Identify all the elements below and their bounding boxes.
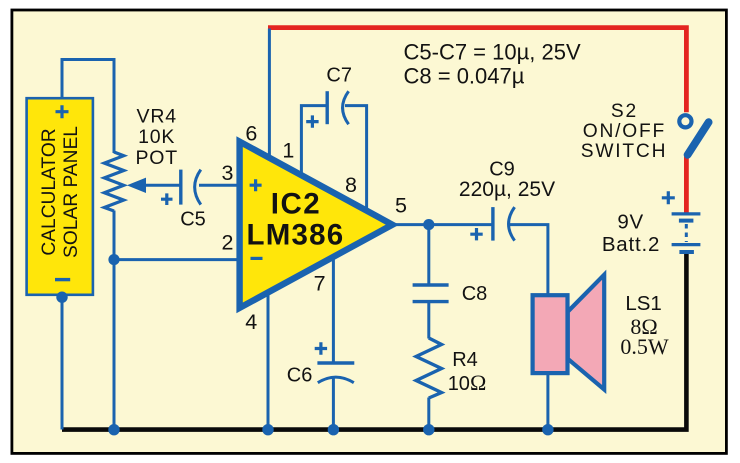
potentiometer VR4 wiper arrow bbox=[127, 178, 146, 193]
node: pin 4 ground junction dot bbox=[262, 424, 273, 435]
svg-text:SOLAR PANEL: SOLAR PANEL bbox=[61, 126, 82, 258]
svg-text:9V: 9V bbox=[617, 211, 644, 234]
svg-text:6: 6 bbox=[245, 121, 257, 145]
wire: panel - down to ground rail bbox=[61, 295, 64, 430]
switch S2 lever bbox=[688, 122, 709, 155]
svg-text:LS1: LS1 bbox=[625, 292, 661, 315]
svg-text:10Ω: 10Ω bbox=[448, 370, 487, 395]
wire: C8 to R4 bbox=[427, 303, 430, 339]
svg-text:CALCULATOR: CALCULATOR bbox=[39, 128, 60, 255]
wire: pin 7 down to C6 bbox=[332, 258, 335, 362]
wire: pin 4 down to ground rail bbox=[267, 294, 270, 430]
op-amp inverting input minus mark bbox=[251, 257, 263, 260]
wire: red segment switch bottom to battery + bbox=[684, 157, 689, 215]
battery plus mark bbox=[662, 191, 675, 204]
label VR4 10K POT bbox=[135, 106, 178, 170]
pin number labels bbox=[222, 121, 408, 334]
wire: C6 to ground rail bbox=[332, 378, 335, 430]
battery cell 2 short plate bbox=[679, 250, 694, 254]
svg-text:2: 2 bbox=[222, 230, 234, 254]
svg-text:C8 = 0.047µ: C8 = 0.047µ bbox=[404, 64, 525, 89]
label R4 value 10 ohm bbox=[448, 349, 487, 395]
capacitor C7 bbox=[306, 91, 348, 128]
svg-text:7: 7 bbox=[314, 272, 326, 296]
label 9V Batt.2 bbox=[602, 211, 660, 257]
wire: pin 6 riser to red rail bbox=[268, 29, 271, 160]
capacitor C8 bbox=[413, 285, 449, 302]
op-amp non-inverting input plus mark bbox=[250, 179, 262, 191]
battery cell 1 short plate bbox=[679, 219, 694, 223]
wire: C9 right plate to speaker top bbox=[508, 225, 548, 296]
potentiometer VR4 zigzag element bbox=[104, 152, 123, 211]
node: pot / pin 2 junction dot bbox=[108, 254, 119, 265]
wire: pot bottom down to ground rail bbox=[113, 211, 116, 430]
battery cell 2 long plate bbox=[672, 243, 701, 246]
wire: C7 right plate down to pin 8 bbox=[345, 106, 367, 212]
svg-text:10K: 10K bbox=[138, 126, 175, 148]
battery B2 cells bbox=[672, 214, 701, 252]
svg-text:3: 3 bbox=[222, 161, 234, 185]
panel plus terminal mark bbox=[56, 105, 69, 118]
capacitor C6 bbox=[315, 342, 355, 382]
svg-text:8: 8 bbox=[345, 173, 357, 197]
svg-text:5: 5 bbox=[395, 193, 407, 217]
svg-text:ON/OFF: ON/OFF bbox=[583, 121, 666, 142]
svg-text:VR4: VR4 bbox=[137, 106, 177, 128]
svg-text:R4: R4 bbox=[452, 349, 478, 371]
svg-text:SWITCH: SWITCH bbox=[581, 141, 667, 162]
solar panel PS1 calculator solar panel bbox=[27, 98, 93, 295]
battery cell 1 long plate bbox=[672, 212, 701, 215]
note component values bbox=[404, 40, 581, 89]
wire: pin 5 output to C9 bbox=[392, 223, 492, 226]
wire: R4 to ground rail bbox=[427, 398, 430, 430]
switch S2 contact circle bbox=[679, 115, 691, 127]
svg-text:IC2: IC2 bbox=[271, 187, 321, 220]
wire: panel + up and over to pot top bbox=[62, 60, 114, 154]
node: output junction dot bbox=[423, 219, 434, 230]
svg-text:C5-C7 = 10µ, 25V: C5-C7 = 10µ, 25V bbox=[404, 40, 581, 65]
node: panel negative terminal dot bbox=[56, 292, 67, 303]
wire: wiper arrow to C5 bbox=[144, 184, 180, 187]
node: speaker ground junction dot bbox=[542, 424, 553, 435]
svg-text:C5: C5 bbox=[180, 209, 206, 231]
node: pot ground junction dot bbox=[108, 424, 119, 435]
svg-text:Batt.2: Batt.2 bbox=[602, 233, 660, 256]
battery dashed middle link bbox=[685, 224, 688, 242]
label S2 ON/OFF SWITCH bbox=[581, 101, 667, 162]
wire: pin 2 from pot line to IC bbox=[114, 258, 239, 261]
capacitor C9 bbox=[470, 207, 514, 241]
resistor R4 zigzag bbox=[416, 338, 441, 398]
svg-text:POT: POT bbox=[135, 147, 178, 169]
op-amp U1 IC2 LM386 triangle bbox=[240, 142, 393, 308]
wire: pin 1 up to C7 left plate bbox=[301, 106, 326, 177]
svg-text:220µ, 25V: 220µ, 25V bbox=[459, 178, 555, 201]
svg-text:C7: C7 bbox=[326, 65, 352, 87]
svg-text:1: 1 bbox=[282, 138, 294, 162]
node: R4 ground junction dot bbox=[423, 424, 434, 435]
speaker LS1 bbox=[533, 275, 605, 390]
node: C6 ground junction dot bbox=[328, 424, 339, 435]
svg-text:0.5W: 0.5W bbox=[620, 334, 669, 359]
svg-text:C6: C6 bbox=[287, 365, 313, 387]
wire: C5 to pin 3 bbox=[199, 184, 239, 187]
wire: V+ red rail from pin 6 riser to switch top bbox=[268, 28, 686, 113]
panel minus terminal mark bbox=[55, 278, 70, 281]
svg-text:S2: S2 bbox=[611, 101, 638, 122]
svg-text:C8: C8 bbox=[462, 283, 488, 305]
wire: black battery negative return to ground rail bbox=[62, 252, 686, 430]
svg-text:LM386: LM386 bbox=[246, 219, 344, 252]
wire: speaker bottom to ground rail bbox=[546, 373, 549, 430]
capacitor C5 bbox=[161, 170, 201, 205]
svg-text:4: 4 bbox=[245, 310, 257, 334]
label LS1 8 ohm 0.5W bbox=[620, 292, 669, 359]
wire: output node down to C8 bbox=[427, 225, 430, 284]
